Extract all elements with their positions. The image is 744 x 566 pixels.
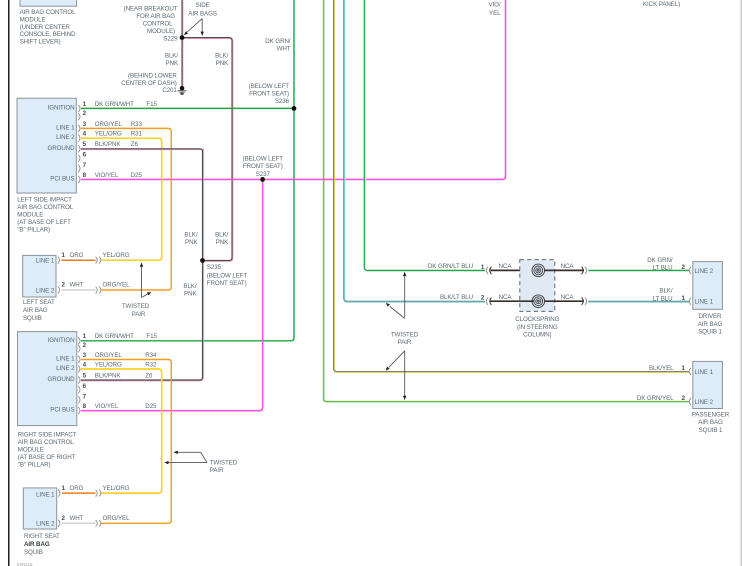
svg-text:FRONT SEAT): FRONT SEAT): [249, 91, 289, 98]
splice symbol line2: [96, 287, 101, 294]
svg-text:SHIFT LEVER): SHIFT LEVER): [20, 39, 61, 46]
svg-text:"B" PILLAR): "B" PILLAR): [17, 227, 50, 234]
page border right: [741, 0, 742, 566]
svg-text:5: 5: [83, 372, 87, 379]
right module pin names: [47, 337, 75, 414]
left side impact air bag control module box: [17, 98, 76, 193]
passenger squib pin names: [695, 369, 714, 406]
svg-text:4: 4: [83, 131, 87, 138]
svg-text:BLK/: BLK/: [215, 231, 228, 238]
svg-text:TWISTED: TWISTED: [122, 303, 150, 310]
wire ORG/YEL left module line1 down to left squib line2: [81, 128, 171, 290]
left seat air bag squib box: [23, 255, 56, 297]
svg-text:2: 2: [62, 282, 66, 289]
wire ORG/YEL right module line1 down to right squib line2: [81, 360, 171, 524]
svg-text:RIGHT SEAT: RIGHT SEAT: [24, 533, 60, 540]
wire NCA row2 left: [490, 300, 534, 302]
svg-text:R32: R32: [145, 361, 157, 368]
svg-text:LINE 2: LINE 2: [695, 268, 714, 275]
svg-text:YEL: YEL: [489, 10, 501, 17]
splice S237 junction dot: [260, 177, 265, 182]
svg-text:WHT: WHT: [277, 46, 291, 53]
svg-text:1: 1: [682, 295, 686, 302]
wire NCA row1 left: [490, 269, 534, 271]
svg-text:1: 1: [481, 264, 485, 271]
svg-text:SQUIB 1: SQUIB 1: [699, 427, 723, 434]
label: splice S237 location: [243, 156, 284, 178]
svg-text:PCI BUS: PCI BUS: [50, 407, 74, 414]
label BLK/PNK (vertical B): [215, 53, 229, 68]
svg-text:PAIR: PAIR: [398, 339, 412, 346]
label: ground C201 location: [121, 73, 177, 94]
svg-text:S235: S235: [207, 264, 222, 271]
wire ORG left squib line1: [62, 259, 96, 261]
splice S229 junction dot: [180, 35, 185, 40]
svg-text:SQUIB 1: SQUIB 1: [698, 329, 722, 336]
svg-text:DK GRN/LT BLU: DK GRN/LT BLU: [428, 263, 473, 270]
svg-text:NCA: NCA: [499, 263, 513, 270]
svg-text:S236: S236: [275, 98, 290, 105]
svg-text:S229: S229: [163, 35, 178, 42]
svg-text:(BELOW LEFT: (BELOW LEFT: [243, 156, 284, 163]
svg-text:F15: F15: [146, 101, 157, 108]
left squib pin brackets: [58, 257, 60, 294]
right squib pin brackets: [58, 490, 60, 527]
svg-text:(UNDER CENTER: (UNDER CENTER: [20, 24, 71, 31]
svg-text:CLOCKSPRING: CLOCKSPRING: [515, 316, 559, 323]
wire VIO/YEL branch from S237 down to right module PCI BUS: [81, 179, 263, 410]
connector symbol clockspring row2 left: [486, 298, 491, 305]
svg-text:VIO/: VIO/: [488, 2, 500, 9]
splice S235 junction dot: [200, 258, 205, 263]
svg-text:COLUMN): COLUMN): [523, 332, 551, 339]
clockspring coil row2: [532, 295, 545, 308]
right module pin brackets: [78, 337, 80, 414]
svg-text:MODULE: MODULE: [18, 447, 44, 454]
svg-text:CONTROL: CONTROL: [143, 21, 173, 28]
svg-text:1: 1: [83, 333, 87, 340]
svg-text:1: 1: [682, 365, 686, 372]
svg-text:LINE 1: LINE 1: [36, 491, 55, 498]
wire WHT right squib line2: [62, 522, 96, 524]
svg-text:GROUND: GROUND: [47, 145, 75, 152]
svg-text:MODULE): MODULE): [147, 28, 175, 35]
svg-text:IGNITION: IGNITION: [48, 337, 75, 344]
right side impact air bag control module box: [18, 332, 77, 426]
wire VIO/YEL from top to left module PCI BUS: [81, 0, 506, 179]
svg-text:1: 1: [62, 485, 66, 492]
wire BLK/YEL vertical from top to passenger squib line1: [334, 0, 690, 372]
svg-text:AIR BAG: AIR BAG: [23, 307, 48, 314]
svg-text:8: 8: [83, 172, 87, 179]
svg-text:7: 7: [83, 162, 87, 169]
right squib pin labels: [62, 485, 131, 522]
label: splice S235: [207, 264, 248, 287]
svg-text:LINE 1: LINE 1: [695, 299, 714, 306]
svg-text:BLK/: BLK/: [215, 53, 228, 60]
svg-text:DK GRN/WHT: DK GRN/WHT: [95, 333, 134, 340]
svg-text:PAIR: PAIR: [132, 311, 146, 318]
svg-text:LINE 2: LINE 2: [36, 521, 55, 528]
svg-text:8: 8: [83, 403, 87, 410]
svg-text:5: 5: [83, 141, 87, 148]
connector symbol clockspring row2 right: [582, 298, 587, 305]
label DK GRN/LT BLU right: [647, 257, 673, 272]
svg-text:LINE 2: LINE 2: [695, 399, 714, 406]
svg-text:CONSOLE, BEHIND: CONSOLE, BEHIND: [20, 31, 76, 38]
svg-text:VIO/YEL: VIO/YEL: [95, 172, 119, 179]
svg-text:ORG/YEL: ORG/YEL: [95, 121, 123, 128]
wire BLK/PNK vertical from top to C201: [181, 0, 184, 88]
label BLK/LT BLU right: [653, 288, 673, 303]
left squib pin names: [36, 258, 55, 295]
label DK GRN/WHT (vertical): [265, 38, 291, 53]
svg-text:GROUND: GROUND: [47, 376, 75, 383]
svg-text:PNK: PNK: [185, 239, 198, 246]
label: passenger air bag squib: [692, 411, 730, 433]
wire NCA row1 right: [545, 269, 584, 271]
clockspring coil row1: [532, 264, 545, 277]
svg-text:BLK/PNK: BLK/PNK: [95, 141, 122, 148]
label: air bag control module location: [20, 9, 77, 45]
wire YEL/ORG left module line2 down to left squib line1: [81, 138, 162, 260]
label: splice S236 location: [249, 83, 290, 105]
wire WHT left squib line2: [62, 289, 96, 291]
svg-text:"B" PILLAR): "B" PILLAR): [18, 462, 51, 469]
svg-text:TWISTED: TWISTED: [391, 331, 419, 338]
svg-text:BLK/: BLK/: [184, 231, 197, 238]
svg-text:BLK/LT BLU: BLK/LT BLU: [440, 294, 473, 301]
label BLK/PNK (vertical C above S235): [184, 231, 198, 246]
svg-text:SQUIB: SQUIB: [23, 315, 42, 322]
svg-text:R31: R31: [131, 131, 143, 138]
wire BLK/PNK branch S229 to second vertical down to S235: [182, 38, 233, 261]
svg-text:D25: D25: [145, 403, 157, 410]
left squib pin labels: [62, 252, 131, 289]
left module pin names: [47, 104, 75, 182]
label: twisted pair (left squib): [122, 303, 150, 318]
arrow: twisted pair (right squib): [168, 452, 207, 462]
label: left seat air bag squib: [23, 299, 55, 322]
svg-text:AIR BAG: AIR BAG: [698, 419, 723, 426]
svg-text:AIR BAG CONTROL: AIR BAG CONTROL: [17, 204, 74, 211]
wire DK GRN/LT BLU to driver squib line2: [588, 269, 689, 272]
label: driver air bag squib: [698, 313, 723, 336]
svg-text:1: 1: [62, 252, 66, 259]
svg-text:3: 3: [83, 121, 87, 128]
svg-text:FRONT SEAT): FRONT SEAT): [243, 163, 283, 170]
svg-text:2: 2: [481, 295, 485, 302]
svg-text:ORG/YEL: ORG/YEL: [95, 352, 123, 359]
label BLK/PNK (below S235): [183, 283, 197, 298]
svg-text:S237: S237: [256, 171, 271, 178]
svg-text:LINE 2: LINE 2: [56, 134, 75, 141]
passenger air bag squib box: [693, 361, 723, 408]
driver squib pin brackets: [689, 267, 691, 305]
svg-text:ORG/YEL: ORG/YEL: [103, 282, 131, 289]
ground C201: [178, 86, 187, 94]
wire YEL/ORG right module line2 down to right squib line1: [81, 369, 162, 493]
svg-text:FRONT SEAT): FRONT SEAT): [207, 280, 247, 287]
label BLK/PNK (vertical B above S235): [215, 231, 229, 246]
wire DK GRN/LT BLU vertical from top to clockspring row1: [364, 0, 485, 271]
svg-text:(AT BASE OF RIGHT: (AT BASE OF RIGHT: [18, 454, 76, 461]
svg-text:(AT BASE OF LEFT: (AT BASE OF LEFT: [17, 219, 71, 226]
svg-text:(BELOW LEFT: (BELOW LEFT: [249, 83, 290, 90]
driver squib pin names: [695, 268, 714, 306]
label: right seat air bag squib: [24, 533, 60, 556]
arrow: side air bags to S229: [186, 19, 202, 33]
svg-text:PASSENGER: PASSENGER: [692, 411, 730, 418]
svg-text:LINE 1: LINE 1: [56, 356, 75, 363]
svg-text:YEL/ORG: YEL/ORG: [103, 485, 130, 492]
svg-text:MIWA: MIWA: [17, 563, 34, 566]
driver air bag squib box: [693, 262, 723, 310]
svg-text:LEFT SIDE IMPACT: LEFT SIDE IMPACT: [17, 197, 72, 204]
svg-text:(NEAR BREAKOUT: (NEAR BREAKOUT: [124, 5, 178, 12]
svg-text:NCA: NCA: [561, 294, 575, 301]
left module pin labels: [83, 101, 158, 179]
svg-text:PNK: PNK: [166, 60, 179, 67]
arrow: twisted pair (clockspring, upper): [390, 275, 405, 319]
clockspring box: [520, 260, 555, 312]
label: left module location: [17, 197, 74, 234]
svg-text:ORG: ORG: [70, 252, 84, 259]
svg-text:LINE 2: LINE 2: [36, 288, 55, 295]
svg-text:DK GRN/: DK GRN/: [647, 257, 673, 264]
svg-text:KICK PANEL): KICK PANEL): [643, 1, 680, 8]
wire DK GRN/WHT F15 left module ignition: [81, 107, 294, 109]
svg-text:BLK/: BLK/: [183, 283, 196, 290]
left module pin brackets: [78, 105, 80, 183]
svg-text:LINE 1: LINE 1: [56, 124, 75, 131]
svg-text:R34: R34: [145, 352, 157, 359]
svg-text:4: 4: [83, 361, 87, 368]
svg-text:PAIR: PAIR: [210, 467, 224, 474]
svg-text:RIGHT SIDE IMPACT: RIGHT SIDE IMPACT: [18, 432, 77, 439]
svg-text:ORG: ORG: [70, 485, 84, 492]
svg-text:NCA: NCA: [499, 294, 513, 301]
svg-text:D25: D25: [131, 172, 143, 179]
svg-text:6: 6: [83, 383, 87, 390]
wire BLK/LT BLU to driver squib line1: [588, 300, 689, 303]
svg-text:DK GRN/YEL: DK GRN/YEL: [637, 395, 674, 402]
label: twisted pair (clockspring/passenger): [391, 331, 419, 346]
svg-text:DK GRN/WHT: DK GRN/WHT: [95, 101, 134, 108]
right seat air bag squib box: [23, 488, 56, 529]
svg-text:IGNITION: IGNITION: [48, 104, 75, 111]
svg-text:WHT: WHT: [70, 515, 84, 522]
label: twisted pair (right squib): [210, 459, 238, 474]
svg-text:AIR BAG: AIR BAG: [24, 541, 50, 548]
wire BLK/PNK left module ground through S235 to right module ground: [81, 149, 203, 381]
svg-text:YEL/ORG: YEL/ORG: [95, 361, 122, 368]
svg-text:2: 2: [83, 342, 87, 349]
right squib pin names: [36, 491, 55, 527]
svg-text:1: 1: [83, 101, 87, 108]
connector symbol clockspring row1 right: [582, 267, 587, 274]
svg-text:PNK: PNK: [184, 291, 197, 298]
wire DK GRN/WHT vertical from top through S236 down to right module ignition: [81, 0, 294, 341]
wire ORG right squib line1: [62, 492, 96, 494]
splice symbol right line1: [96, 490, 101, 497]
svg-text:VIO/YEL: VIO/YEL: [95, 403, 119, 410]
arrow: twisted pair (left squib): [142, 267, 149, 298]
svg-text:TWISTED: TWISTED: [210, 459, 238, 466]
svg-text:LEFT SEAT: LEFT SEAT: [23, 299, 55, 306]
svg-text:C201: C201: [162, 87, 177, 94]
splice symbol line1: [96, 257, 101, 264]
splice symbol right line2: [96, 520, 101, 527]
svg-text:LINE 1: LINE 1: [36, 258, 55, 265]
svg-text:BLK/YEL: BLK/YEL: [649, 365, 674, 372]
svg-text:DRIVER: DRIVER: [699, 313, 723, 320]
svg-text:NCA: NCA: [561, 263, 575, 270]
splice S236 junction dot: [292, 106, 297, 111]
svg-text:SQUIB: SQUIB: [24, 549, 43, 556]
svg-text:PCI BUS: PCI BUS: [50, 175, 74, 182]
air bag control module U0 (partial box at top): [20, 0, 77, 6]
svg-text:AIR BAG: AIR BAG: [698, 321, 723, 328]
svg-text:BLK/PNK: BLK/PNK: [95, 372, 122, 379]
svg-text:7: 7: [83, 393, 87, 400]
svg-text:Z6: Z6: [131, 141, 139, 148]
svg-text:YEL/ORG: YEL/ORG: [95, 131, 122, 138]
svg-text:3: 3: [83, 352, 87, 359]
svg-text:LINE 1: LINE 1: [695, 369, 714, 376]
wire DK GRN/YEL vertical from top to passenger squib line2: [324, 0, 690, 402]
svg-text:DK GRN/: DK GRN/: [265, 38, 291, 45]
svg-text:YEL/ORG: YEL/ORG: [103, 252, 130, 259]
svg-text:(BELOW LEFT: (BELOW LEFT: [207, 273, 248, 280]
label BLK/PNK (vertical A): [165, 53, 179, 68]
svg-text:PNK: PNK: [216, 239, 229, 246]
svg-text:(BEHIND LOWER: (BEHIND LOWER: [128, 73, 177, 80]
svg-text:MODULE: MODULE: [17, 212, 43, 219]
wire NCA row2 right: [545, 300, 584, 302]
svg-text:LINE 2: LINE 2: [56, 365, 75, 372]
svg-text:AIR BAG CONTROL: AIR BAG CONTROL: [18, 439, 75, 446]
svg-text:(IN STEERING: (IN STEERING: [517, 324, 558, 331]
svg-text:R33: R33: [131, 121, 143, 128]
svg-text:FOR AIR BAG: FOR AIR BAG: [136, 13, 175, 20]
page border left: [8, 0, 10, 566]
svg-text:2: 2: [83, 110, 87, 117]
svg-text:WHT: WHT: [70, 282, 84, 289]
arrow: twisted pair (passenger, lower): [389, 351, 405, 397]
svg-text:PNK: PNK: [216, 60, 229, 67]
svg-text:BLK/: BLK/: [659, 288, 672, 295]
svg-text:BLK/: BLK/: [165, 53, 178, 60]
right module pin labels: [83, 333, 158, 410]
svg-text:LT BLU: LT BLU: [653, 295, 673, 302]
label: right module location: [18, 432, 77, 469]
svg-text:LT BLU: LT BLU: [653, 265, 673, 272]
svg-text:MODULE: MODULE: [20, 17, 46, 24]
svg-text:SIDE: SIDE: [196, 2, 210, 9]
connector symbol clockspring row1 left: [486, 267, 491, 274]
svg-text:6: 6: [83, 152, 87, 159]
passenger squib pin brackets: [689, 368, 691, 405]
label: clockspring: [515, 316, 559, 339]
svg-text:2: 2: [62, 515, 66, 522]
svg-text:AIR BAGS: AIR BAGS: [188, 10, 217, 17]
svg-text:Z6: Z6: [145, 372, 153, 379]
svg-text:ORG/YEL: ORG/YEL: [103, 515, 131, 522]
label VIO/YEL (vertical): [488, 2, 501, 18]
label: splice S229 location: [124, 5, 179, 42]
svg-text:F15: F15: [146, 333, 157, 340]
wire BLK/LT BLU vertical from top to clockspring row2: [344, 0, 485, 302]
svg-text:AIR BAG CONTROL: AIR BAG CONTROL: [20, 9, 77, 16]
label: side air bags: [188, 2, 217, 18]
